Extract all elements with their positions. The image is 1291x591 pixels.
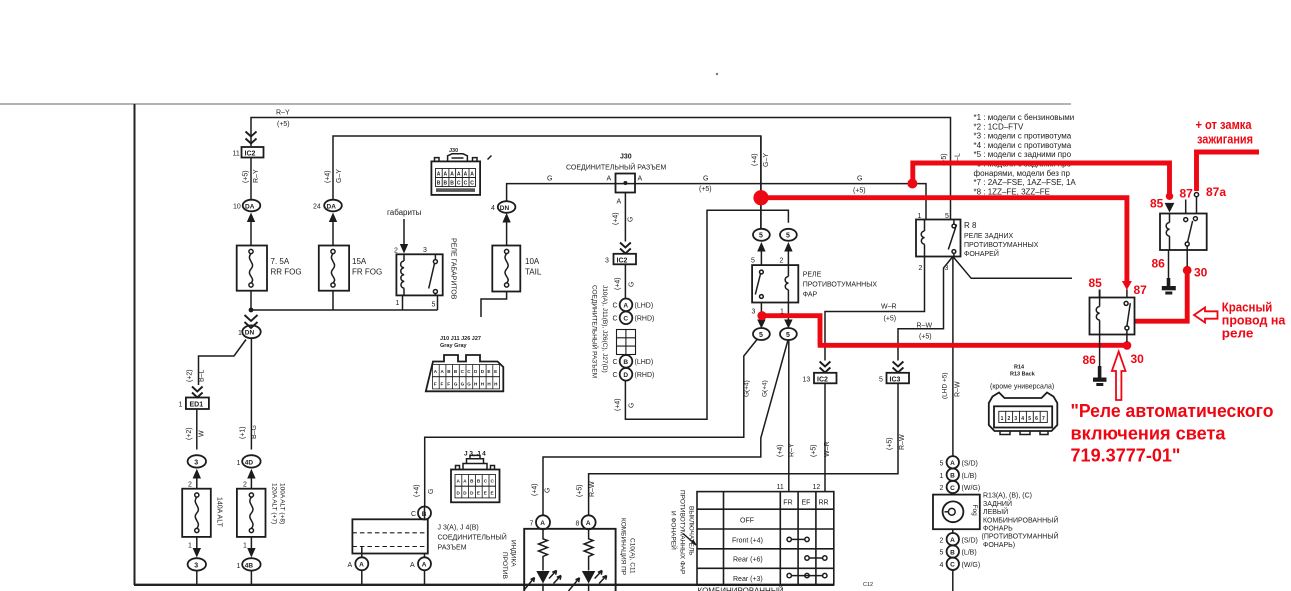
arrow pointing to switch table	[683, 534, 696, 546]
svg-text:A: A	[617, 199, 622, 206]
arrow into fuse 120A	[247, 469, 255, 479]
connector oval B with C label on dashed box	[411, 507, 431, 520]
svg-text:G: G	[703, 176, 708, 183]
red hollow arrow pointing left at relay wire	[1194, 308, 1218, 323]
svg-text:5: 5	[786, 332, 790, 339]
svg-text:(RHD): (RHD)	[635, 316, 655, 323]
svg-text:Front (+4): Front (+4)	[732, 538, 763, 545]
wire to bottom frame	[196, 571, 198, 585]
connector ED1 pin 1 chevron	[192, 387, 203, 398]
svg-text:(+5): (+5)	[884, 316, 897, 323]
switch table ВЫКЛЮЧАТЕЛЬ ПРОТИВОТУМАННЫХ И ФОНАРЕЙ	[697, 484, 834, 585]
svg-text:A: A	[422, 562, 427, 569]
wires below fog relay	[761, 303, 788, 322]
svg-text:5: 5	[432, 302, 436, 309]
svg-text:A: A	[410, 562, 415, 569]
svg-text:5: 5	[786, 233, 790, 240]
connector IC2 pin 13 chevron	[820, 362, 831, 373]
red hollow arrow pointing up at relay-2	[1112, 352, 1126, 401]
svg-text:С10(А), С11: С10(А), С11	[629, 538, 636, 574]
wire R-Y (+4) from bottom-right oval to switch table pin 11	[788, 340, 790, 492]
svg-text:W: W	[199, 430, 206, 437]
connector IC2 pin 11 chevron	[246, 132, 257, 144]
wire IC2-13 down to switch table pin 12	[824, 383, 826, 491]
svg-text:87a: 87a	[1206, 185, 1226, 199]
svg-text:11: 11	[777, 484, 784, 491]
label (+4) G below IC2-3	[615, 277, 636, 290]
wire G-Y drop from line2 through red dot to fog relay pin 5 oval	[752, 153, 771, 167]
wire and arrow into relay ГАБАРИТОВ pin 2	[403, 219, 405, 244]
connector oval A (left) below dashed box	[348, 557, 369, 570]
svg-text:(+4): (+4)	[777, 444, 784, 457]
relay-2 pin 85 stub	[1099, 290, 1101, 298]
svg-text:РЕЛЕ ГАБАРИТОВ: РЕЛЕ ГАБАРИТОВ	[450, 238, 457, 300]
svg-text:*4 : модели с противотума: *4 : модели с противотума	[974, 141, 1072, 150]
svg-text:(LHD): (LHD)	[635, 303, 654, 310]
svg-text:A: A	[470, 172, 474, 178]
junction node (251,310)	[249, 308, 254, 313]
notes text *1..*8	[974, 113, 1077, 196]
svg-text:A: A	[586, 520, 591, 527]
connector IC2 pin 3	[605, 254, 636, 265]
svg-text:C: C	[464, 181, 468, 187]
svg-text:4B: 4B	[245, 562, 254, 569]
fuse 10A TAIL	[492, 246, 542, 292]
svg-text:A: A	[450, 172, 454, 178]
svg-text:C: C	[470, 181, 474, 187]
svg-text:B–G: B–G	[251, 425, 258, 439]
svg-text:G: G	[547, 176, 552, 183]
switch contacts Front row	[787, 537, 809, 541]
svg-text:TAIL: TAIL	[525, 268, 542, 277]
svg-text:A: A	[437, 172, 441, 178]
wire G bus y=183.6 from DN-4 corner to R8 pin 1	[507, 184, 926, 220]
relay-719 pin 30 stub	[1186, 246, 1188, 267]
svg-text:3: 3	[752, 309, 756, 316]
svg-text:(RHD): (RHD)	[635, 372, 655, 379]
connector oval B (LHD)	[613, 355, 654, 368]
svg-text:5: 5	[940, 550, 944, 557]
relay РЕЛЕ ПРОТИВОТУМАННЫХ ФАР	[752, 265, 877, 302]
svg-text:G: G	[545, 488, 552, 493]
svg-text:IC2: IC2	[617, 257, 628, 264]
rear lamp connector oval 2 A (S/D) lower	[940, 533, 978, 545]
connector DN pin 1	[238, 325, 261, 338]
svg-text:ПРОТИВОТУМАННЫХ ФАР: ПРОТИВОТУМАННЫХ ФАР	[679, 490, 686, 574]
svg-text:(кроме универсала): (кроме универсала)	[990, 384, 1054, 391]
svg-text:30: 30	[1131, 352, 1145, 366]
connector oval D (RHD)	[613, 368, 655, 381]
dashed junction box J3(A) J4(B) СОЕДИНИТЕЛЬНЫЙ РАЗЪЕМ	[352, 519, 506, 553]
wire G(+4) from bottom-right oval to indicator riser	[543, 340, 788, 515]
svg-text:(LHD +5): (LHD +5)	[942, 372, 949, 399]
svg-text:G: G	[461, 382, 465, 387]
rear lamp connector oval 5 B (L/B) lower	[940, 545, 977, 557]
svg-text:C: C	[613, 372, 618, 379]
svg-text:3: 3	[1014, 416, 1017, 422]
svg-text:(+5): (+5)	[277, 121, 290, 128]
svg-text:5: 5	[1028, 416, 1031, 422]
wire through lamp ovals	[952, 456, 954, 533]
svg-text:G(+4): G(+4)	[744, 380, 751, 397]
relay ГАБАРИТОВ pin 1 leg	[402, 296, 404, 311]
svg-text:85: 85	[1150, 197, 1164, 211]
svg-text:КОМБИНИРОВАННЫЙ: КОМБИНИРОВАННЫЙ	[698, 587, 784, 591]
svg-text:(+5): (+5)	[811, 444, 818, 457]
svg-text:СОЕДИНИТЕЛЬНЫЙ РАЗЪЕМ: СОЕДИНИТЕЛЬНЫЙ РАЗЪЕМ	[566, 163, 666, 172]
svg-text:*1 : модели с бензиновыми: *1 : модели с бензиновыми	[974, 113, 1075, 122]
wire from R8 pin 3 diagonal to right edge (to RH lamp)	[953, 257, 1072, 279]
svg-text:*2 : 1CD–FTV: *2 : 1CD–FTV	[974, 122, 1024, 131]
svg-text:A: A	[950, 537, 955, 544]
label (+4) G	[613, 212, 635, 225]
J30 connector pictorial	[431, 148, 491, 195]
J10 J11 J26 J27 connector pictorial	[426, 336, 504, 391]
red dot at relay-2 pin 30	[1123, 341, 1132, 350]
svg-text:(+1): (+1)	[240, 426, 247, 439]
connector IC2 pin 3 chevron	[620, 243, 631, 254]
svg-text:C: C	[623, 316, 628, 323]
svg-text:(+4): (+4)	[532, 483, 539, 496]
connector 3 (lower)	[188, 558, 206, 570]
wire fuse FR FOG to y310 bus	[332, 291, 334, 310]
svg-text:7: 7	[1042, 416, 1045, 422]
node label R-Y (+5)	[276, 110, 290, 129]
svg-text:ПРОТИВОТУМАННЫХ: ПРОТИВОТУМАННЫХ	[803, 282, 878, 289]
svg-text:24: 24	[313, 204, 321, 211]
svg-text:2: 2	[1008, 416, 1011, 422]
svg-text:ЛЕВЫЙ: ЛЕВЫЙ	[983, 507, 1008, 516]
svg-text:2: 2	[919, 265, 923, 272]
svg-text:IC2: IC2	[817, 376, 828, 383]
svg-text:ПРОТИВОТУМАННЫХ: ПРОТИВОТУМАННЫХ	[964, 242, 1039, 249]
svg-text:10A: 10A	[525, 257, 540, 266]
svg-text:5: 5	[759, 233, 763, 240]
svg-text:C: C	[613, 303, 618, 310]
svg-text:2: 2	[188, 482, 192, 489]
label (+5) R-W on indicator riser	[577, 481, 597, 497]
svg-text:И ФОНАРЕЙ: И ФОНАРЕЙ	[670, 511, 679, 550]
wire R-Y (+5) bus (line1 from IC2-11 column to R8 pin 5 corner)	[251, 118, 951, 220]
arrows into bottom ovals	[757, 320, 765, 329]
fog relay oval 5 (top left)	[753, 229, 770, 241]
red wire from ignition switch to pin 87a	[1197, 152, 1260, 191]
svg-text:R14: R14	[1014, 365, 1025, 371]
svg-text:J10 J11 J26 J27: J10 J11 J26 J27	[440, 336, 481, 342]
connector DN pin 4	[491, 201, 515, 213]
svg-text:*3 : модели с противотума: *3 : модели с противотума	[974, 132, 1072, 141]
svg-text:+ от замка: + от замка	[1196, 117, 1253, 132]
wire R-W (+5) from IC3-5 down to indicator bus	[589, 383, 898, 515]
svg-text:B: B	[950, 549, 955, 556]
svg-text:1: 1	[179, 402, 183, 409]
wires ovals to relay box	[761, 250, 788, 265]
vertical label ВЫКЛЮЧАТЕЛЬ ПРОТИВОТУМАННЫХ И ФОНАРЕЙ	[670, 490, 695, 574]
svg-text:B: B	[950, 473, 955, 480]
svg-text:(W/G): (W/G)	[962, 562, 981, 569]
svg-text:1: 1	[243, 543, 247, 550]
svg-text:фонарями, модели без пр: фонарями, модели без пр	[974, 169, 1071, 178]
svg-text:2: 2	[243, 482, 247, 489]
relay-719 pin 86 ground	[1168, 250, 1170, 280]
red label + от замка зажигания	[1196, 117, 1254, 147]
svg-text:(+4): (+4)	[615, 277, 622, 290]
wire W-R (+5) from R8 pin 2 to IC2-13	[825, 257, 925, 361]
svg-text:КОМБИНАЦИЯ ПР: КОМБИНАЦИЯ ПР	[620, 518, 627, 575]
connector 3 (upper)	[188, 455, 206, 467]
svg-text:(+5): (+5)	[853, 188, 866, 195]
instrument cluster box КОМБИНАЦИЯ ПРИБОРОВ	[524, 529, 615, 591]
relay РЕЛЕ ГАБАРИТОВ	[396, 238, 456, 300]
svg-text:FR: FR	[783, 500, 792, 507]
wire ED1 to oval 3	[196, 409, 198, 450]
wire R-Y (+5) from IC2-11 to DA-10	[250, 158, 252, 201]
svg-text:DA: DA	[245, 203, 255, 210]
R14 connector pictorial	[989, 393, 1058, 435]
red dot at relay-719 pin 85	[1166, 193, 1173, 200]
fuse 120A ALT (+7) 100A ALT (+8)	[237, 483, 286, 537]
svg-text:A: A	[623, 303, 628, 310]
svg-text:FR FOG: FR FOG	[352, 268, 382, 277]
svg-text:J10(A), J11(B), J26(C), J27(D): J10(A), J11(B), J26(C), J27(D)	[601, 285, 608, 373]
connector DA pin 10	[233, 200, 260, 212]
svg-text:100A ALT (+8): 100A ALT (+8)	[279, 483, 286, 524]
switch contacts Rear (+6) row	[805, 556, 827, 560]
svg-text:G–Y: G–Y	[763, 153, 770, 167]
svg-text:G–Y: G–Y	[336, 169, 343, 183]
svg-text:C: C	[613, 316, 618, 323]
svg-text:(+5): (+5)	[577, 484, 584, 497]
svg-text:R–Y: R–Y	[789, 443, 796, 457]
fog relay oval 5 (bottom left)	[753, 328, 770, 340]
svg-text:G(+4): G(+4)	[762, 380, 769, 397]
svg-text:G: G	[454, 382, 458, 387]
wire DA-10 to fuse RR FOG	[250, 221, 252, 246]
wire box A down to IC2-3	[624, 193, 626, 242]
svg-text:1: 1	[238, 330, 242, 337]
svg-text:RR FOG: RR FOG	[271, 268, 302, 277]
label (+4) G below oval D	[615, 398, 636, 411]
svg-text:3: 3	[605, 258, 609, 265]
svg-text:OFF: OFF	[740, 518, 754, 525]
junction grid box	[617, 330, 636, 355]
svg-text:A: A	[444, 172, 448, 178]
svg-text:(+2): (+2)	[187, 369, 194, 382]
svg-text:E: E	[491, 491, 494, 496]
red wire from fog relay pin 3 to relay-2 pin 30	[762, 316, 1125, 346]
svg-text:ЗАДНИЙ: ЗАДНИЙ	[983, 499, 1012, 508]
svg-text:W–R: W–R	[881, 304, 897, 311]
wire IC2-3 to oval A	[624, 264, 626, 298]
connector IC3 pin 5	[879, 373, 909, 384]
svg-text:140A ALT: 140A ALT	[216, 497, 223, 528]
fuse 15A FR FOG	[319, 246, 382, 291]
svg-text:РЕЛЕ ЗАДНИХ: РЕЛЕ ЗАДНИХ	[964, 233, 1014, 240]
label (+5) R-L on R8 pin5 wire	[941, 153, 962, 166]
label (+2) B-L	[187, 369, 206, 382]
svg-text:C: C	[950, 485, 955, 492]
svg-text:ВЫКЛЮЧАТЕЛЬ: ВЫКЛЮЧАТЕЛЬ	[688, 506, 695, 556]
fuse 7.5A RR FOG	[237, 246, 302, 291]
connector ED1 pin 1	[179, 398, 209, 410]
svg-text:5: 5	[879, 377, 883, 384]
junction box A on G bus (J30 joint)	[607, 174, 643, 206]
svg-text:РЕЛЕ: РЕЛЕ	[803, 272, 822, 279]
relay-719 (реле 719.3777-01) box	[1160, 214, 1207, 251]
svg-text:(+4): (+4)	[613, 212, 620, 225]
svg-text:DN: DN	[245, 330, 255, 337]
relay-2 pin 30 stub to red bus	[1126, 330, 1128, 342]
label G (+5) right	[853, 176, 866, 195]
wire from lamp to bottom edge	[952, 570, 954, 591]
svg-text:(+4): (+4)	[414, 484, 421, 497]
resistor R (indicator 1)	[539, 529, 548, 570]
connector oval 7 A	[530, 515, 551, 529]
svg-text:G: G	[629, 282, 636, 287]
svg-text:1: 1	[237, 563, 241, 570]
svg-text:120A ALT (+7): 120A ALT (+7)	[271, 483, 278, 524]
svg-text:30: 30	[1194, 266, 1208, 280]
red wire from G bus tap to relay-719 pin 85	[913, 163, 1170, 194]
svg-text:(L/B): (L/B)	[962, 473, 977, 480]
svg-text:C: C	[613, 359, 618, 366]
svg-text:E: E	[477, 491, 480, 496]
connector oval A (right) below dashed box	[410, 557, 431, 570]
red wire from G-Y tap to relay-2 pin 87	[765, 198, 1127, 282]
svg-text:C: C	[457, 181, 461, 187]
svg-text:F: F	[434, 382, 437, 387]
svg-text:B–L: B–L	[199, 369, 206, 382]
svg-text:B: B	[437, 181, 441, 187]
svg-text:C12: C12	[863, 582, 873, 588]
svg-text:G: G	[857, 176, 862, 183]
svg-text:DA: DA	[327, 203, 337, 210]
svg-text:A: A	[540, 520, 545, 527]
label (+2) W	[186, 427, 206, 440]
rear lamp connector oval 4 C (W/G) lower	[940, 558, 981, 570]
wires from dashed box A ovals to bottom frame	[362, 554, 425, 586]
connector 4D pin 1	[237, 455, 261, 467]
svg-text:РАЗЪЕМ: РАЗЪЕМ	[438, 545, 467, 552]
wire DN-4 to fuse TAIL	[506, 222, 508, 246]
relay ГАБАРИТОВ pin 5 leg	[437, 296, 439, 311]
svg-text:8: 8	[576, 521, 580, 528]
svg-text:87: 87	[1180, 187, 1194, 201]
wire G-Y (+4) line2 bus from 24DA column to fog relay column	[333, 136, 761, 229]
fog relay oval 5 (bottom right)	[780, 328, 797, 340]
svg-text:719.3777-01": 719.3777-01"	[1071, 445, 1181, 466]
svg-text:7. 5A: 7. 5A	[271, 257, 290, 266]
svg-text:(+4): (+4)	[752, 153, 759, 166]
svg-text:зажигания: зажигания	[1197, 132, 1253, 147]
svg-text:13: 13	[803, 377, 811, 384]
svg-text:реле: реле	[1222, 326, 1254, 341]
svg-text:(+2): (+2)	[186, 427, 193, 440]
wire R-W (+5) from R8 pin 3 to IC3-5	[898, 257, 953, 361]
svg-text:12: 12	[813, 484, 821, 491]
svg-text:IC2: IC2	[245, 151, 256, 158]
LED indicator 2	[569, 571, 607, 591]
svg-text:W–R: W–R	[824, 441, 831, 457]
svg-text:R–Y: R–Y	[253, 169, 260, 183]
relay-2 (дублирующее реле) box	[1090, 298, 1135, 335]
svg-text:2: 2	[780, 258, 784, 265]
svg-text:86: 86	[1152, 257, 1166, 271]
svg-text:(+5): (+5)	[243, 170, 250, 183]
J3 J4 connector pictorial	[451, 451, 500, 503]
red label "Реле автоматического включения света 719.3777-01"	[1071, 400, 1274, 466]
svg-text:R13(A), (B), (C): R13(A), (B), (C)	[983, 493, 1032, 500]
svg-text:ПРОТИВ: ПРОТИВ	[501, 552, 508, 579]
label (+1) B-G	[240, 425, 258, 439]
relay R8 box	[916, 220, 961, 257]
svg-text:C: C	[411, 511, 416, 518]
svg-text:(S/D): (S/D)	[962, 538, 978, 545]
svg-text:A: A	[464, 172, 468, 178]
svg-text:A: A	[359, 562, 364, 569]
svg-text:6: 6	[1035, 416, 1038, 422]
svg-text:(+5): (+5)	[919, 334, 932, 341]
svg-text:габариты: габариты	[387, 208, 422, 217]
label (+4) G on C/B riser	[414, 484, 436, 497]
red arrow into relay-2 pin 87	[1122, 281, 1132, 290]
arrow into DN-4	[502, 213, 510, 223]
svg-text:(S/D): (S/D)	[962, 461, 978, 468]
svg-text:3: 3	[194, 459, 198, 466]
svg-text:СОЕДИНИТЕЛЬНЫЙ: СОЕДИНИТЕЛЬНЫЙ	[438, 533, 507, 542]
svg-text:"Реле автоматического: "Реле автоматического	[1071, 400, 1274, 421]
wire B-L diagonal from DN to ED1	[199, 340, 247, 386]
svg-text:Rear (+6): Rear (+6)	[733, 557, 763, 564]
wire DA-24 to fuse FR FOG	[332, 221, 334, 246]
red wire relay-2 side to relay-719 pin 30	[1135, 272, 1188, 321]
svg-text:2: 2	[940, 538, 944, 545]
svg-text:G: G	[628, 217, 635, 222]
wire stub below fuse TAIL	[481, 292, 507, 318]
label G (+5) middle	[699, 176, 712, 194]
svg-text:G: G	[428, 489, 435, 494]
label (+5) R-Y vertical	[243, 169, 261, 183]
svg-text:5: 5	[759, 332, 763, 339]
svg-text:1: 1	[940, 473, 944, 480]
svg-text:ИНДИКА: ИНДИКА	[510, 540, 517, 567]
svg-text:R–Y: R–Y	[276, 110, 290, 117]
svg-text:G: G	[629, 403, 636, 408]
connector IC2 pin 13	[803, 373, 837, 384]
svg-text:85: 85	[1089, 276, 1103, 290]
svg-text:(ПРОТИВОТУМАННЫЙ: (ПРОТИВОТУМАННЫЙ	[982, 532, 1059, 541]
black arrow into pin 85	[1165, 203, 1175, 213]
svg-text:(W/G): (W/G)	[962, 485, 981, 492]
svg-text:R–W: R–W	[955, 381, 962, 397]
LED indicator 1	[524, 571, 561, 591]
svg-text:DN: DN	[500, 205, 510, 212]
svg-text:4: 4	[1021, 416, 1024, 422]
svg-text:B: B	[444, 181, 448, 187]
svg-text:*7 : 2AZ–FSE, 1AZ–FSE, 1A: *7 : 2AZ–FSE, 1AZ–FSE, 1A	[974, 178, 1077, 187]
svg-text:(LHD): (LHD)	[635, 359, 654, 366]
switch contacts Rear (+3) row	[787, 573, 827, 577]
arrow into fuse 140A	[193, 469, 201, 479]
wire fuse RR FOG to junction	[250, 291, 252, 310]
connector oval A (LHD)	[613, 299, 654, 312]
svg-text:J30: J30	[620, 154, 632, 161]
svg-text:4: 4	[491, 205, 495, 212]
connector 4B pin 1	[237, 558, 261, 570]
svg-text:5: 5	[940, 461, 944, 468]
wire bus y=310 to relay legs	[251, 309, 438, 311]
svg-text:включения света: включения света	[1071, 422, 1227, 443]
